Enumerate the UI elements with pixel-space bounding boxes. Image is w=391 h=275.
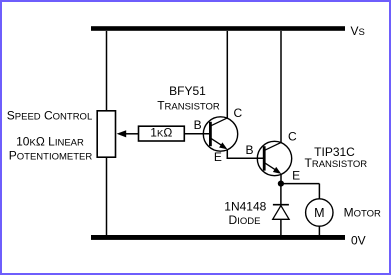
transistor Q1 BFY51 circle	[203, 117, 237, 151]
transistor Q1 collector stroke	[211, 118, 228, 126]
svg-text:M: M	[314, 206, 324, 220]
svg-text:E: E	[214, 150, 222, 164]
svg-text:DIODE: DIODE	[229, 213, 261, 227]
transistor Q2 base bar	[263, 146, 266, 170]
svg-text:E: E	[292, 168, 300, 182]
Vs supply rail	[91, 26, 345, 31]
svg-text:MOTOR: MOTOR	[344, 205, 381, 219]
wire: Q2 collector to Vs rail	[280, 31, 282, 143]
potentiometer wiper wire	[124, 133, 139, 135]
svg-text:BFY51: BFY51	[169, 84, 206, 98]
wire: Q1 emitter to Q2 base	[227, 157, 265, 159]
wire: resistor to BFY51 base	[184, 133, 210, 135]
wire: Q2 emitter down to junction	[280, 174, 282, 184]
svg-text:1N4148: 1N4148	[224, 200, 266, 214]
transistor Q1 base bar	[209, 122, 212, 146]
svg-text:C: C	[288, 129, 297, 143]
junction node dot	[278, 181, 284, 187]
transistor Q2 emitter arrowhead	[273, 167, 281, 174]
svg-text:TRANSISTOR: TRANSISTOR	[304, 156, 367, 170]
potentiometer wiper arrowhead	[117, 130, 127, 137]
transistor Q2 emitter stroke	[265, 163, 280, 173]
diode D1 1N4148 cathode bar	[273, 204, 289, 206]
0V rail	[91, 235, 345, 240]
wire: Q1 collector to Vs rail	[226, 31, 228, 118]
svg-text:C: C	[234, 106, 243, 120]
svg-text:TRANSISTOR: TRANSISTOR	[157, 98, 220, 112]
motor M1 circle	[306, 199, 333, 226]
svg-text:0V: 0V	[351, 234, 366, 248]
resistor R1 1k box	[139, 126, 185, 141]
wire: branch down to motor	[318, 184, 320, 199]
transistor Q1 emitter arrowhead	[219, 142, 227, 149]
wire: junction down to diode	[280, 184, 282, 206]
transistor Q1 emitter stroke	[211, 138, 226, 148]
potentiometer VR1 body	[97, 111, 115, 157]
transistor Q2 TIP31C circle	[257, 141, 291, 175]
svg-text:VS: VS	[351, 24, 365, 38]
svg-text:B: B	[194, 118, 202, 132]
diode D1 triangle	[273, 206, 289, 220]
wire: rail to potentiometer top	[106, 31, 108, 111]
wire: junction to motor branch	[281, 183, 320, 185]
svg-text:1KΩ: 1KΩ	[150, 126, 172, 140]
svg-text:B: B	[246, 143, 254, 157]
wire: Q1 emitter down	[226, 149, 228, 159]
svg-text:POTENTIOMETER: POTENTIOMETER	[9, 149, 93, 163]
svg-text:TIP31C: TIP31C	[314, 145, 355, 159]
transistor Q2 collector stroke	[265, 142, 282, 150]
svg-text:10KΩ LINEAR: 10KΩ LINEAR	[16, 135, 84, 149]
wire: potentiometer bottom to 0V rail	[106, 157, 108, 235]
wire: motor to 0V rail	[318, 226, 320, 235]
wire: diode to 0V rail	[280, 219, 282, 235]
svg-text:SPEED CONTROL: SPEED CONTROL	[7, 109, 92, 123]
